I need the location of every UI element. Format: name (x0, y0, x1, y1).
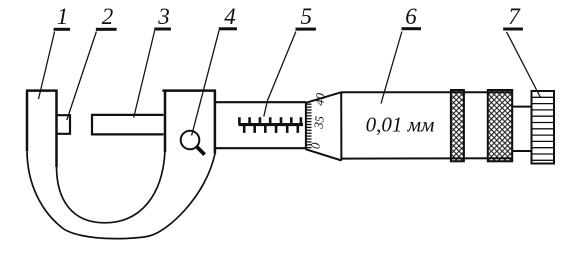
svg-text:1: 1 (57, 4, 69, 29)
label 3 underline (154, 28, 171, 31)
label 2 underline (96, 28, 117, 31)
thimble cone top edge (306, 92, 341, 103)
main scale upper ticks (239, 117, 301, 124)
main scale datum line (part 5) (239, 123, 304, 126)
leader line 7 (507, 32, 541, 98)
svg-text:0: 0 (308, 141, 323, 150)
lock housing block (162, 91, 216, 154)
connector cylinder top line (512, 106, 531, 108)
ratchet horizontal knurl lines (532, 97, 555, 160)
sleeve bottom line (215, 147, 306, 149)
thimble bevel vernier ticks (306, 104, 312, 147)
knurled band 1 (451, 90, 464, 161)
svg-text:2: 2 (102, 4, 114, 29)
leader line 4 (192, 30, 220, 135)
spindle (part 3) (92, 115, 164, 134)
frame U inner arc (57, 150, 166, 223)
ratchet cap (part 7) (532, 91, 555, 164)
svg-text:35: 35 (311, 115, 327, 130)
frame U outer arc (27, 150, 215, 239)
leader line 5 (264, 32, 296, 117)
knurled band 2 (488, 90, 512, 161)
connector cylinder bottom line (512, 150, 531, 152)
lock lever handle (197, 147, 205, 155)
leader line 6 (381, 32, 402, 104)
lock lever circle (part 4) (181, 131, 200, 150)
frame column (part 1) (26, 91, 58, 167)
thimble body (part 6) (341, 92, 512, 160)
thimble bevel edge line (305, 103, 307, 150)
leader line 2 (67, 32, 97, 121)
label 6 underline (402, 27, 422, 30)
svg-text:3: 3 (157, 4, 170, 29)
label 4 underline (219, 27, 237, 30)
svg-text:5: 5 (301, 4, 313, 29)
svg-text:4: 4 (224, 4, 236, 29)
svg-text:7: 7 (508, 4, 521, 29)
main scale lower ticks (244, 125, 298, 133)
svg-text:0,01 мм: 0,01 мм (366, 113, 435, 137)
label 5 underline (296, 28, 316, 31)
sleeve top line (215, 101, 306, 103)
thimble cone bottom edge (306, 149, 342, 160)
svg-text:6: 6 (405, 4, 417, 29)
label 1 underline (54, 28, 70, 31)
leader line 1 (39, 32, 55, 100)
anvil (part 2) (57, 115, 71, 134)
leader line 3 (134, 31, 155, 118)
label 7 underline (503, 28, 523, 31)
